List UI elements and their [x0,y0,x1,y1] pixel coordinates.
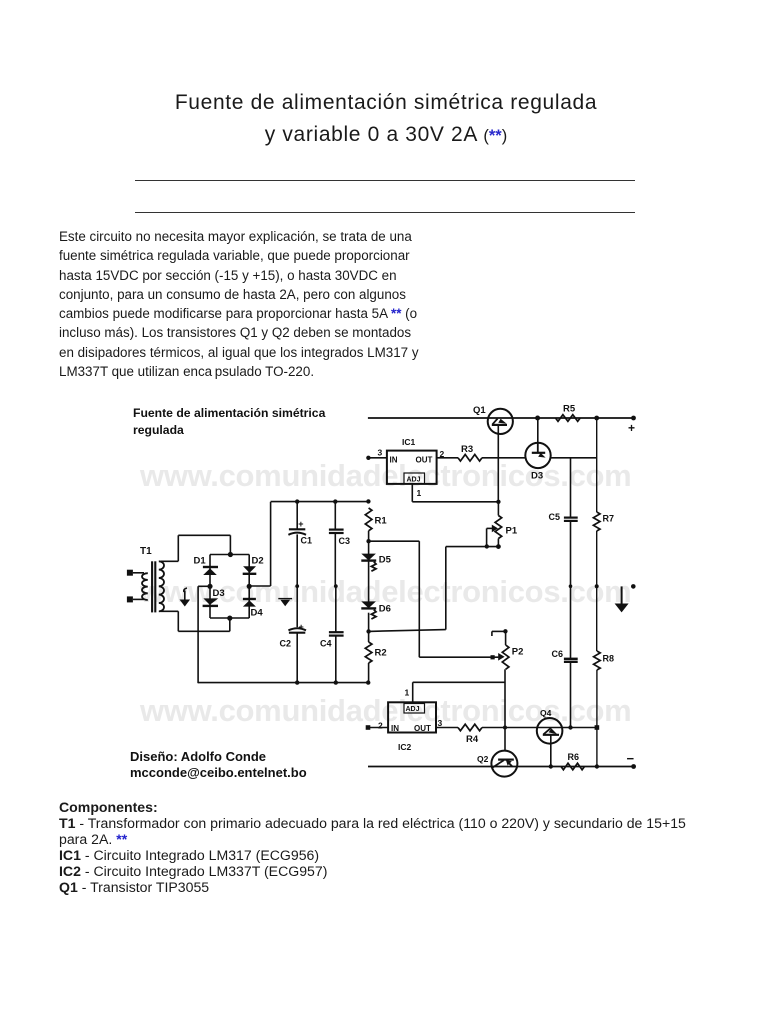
svg-text:R5: R5 [563,404,576,415]
capacitor C3 [329,502,350,586]
svg-text:R1: R1 [375,516,388,527]
diode D2 [243,556,264,574]
node C1 mid [295,584,299,588]
document title line 1 [2,91,768,115]
svg-text:ADJ: ADJ [406,706,420,713]
filter mid ground arrow [278,599,292,607]
resistor R5 [556,404,581,422]
wire R7 to mid [596,531,598,586]
svg-text:3: 3 [378,448,383,458]
resistor R7 [593,512,614,531]
horizontal rule 2 [135,212,635,213]
bridge bottom junction [227,616,232,621]
transistor Q2 [477,751,517,777]
node C5 mid tick [569,584,573,588]
svg-text:IC1: IC1 [402,437,416,447]
schematic title text [133,406,326,437]
zener D6 [361,601,391,619]
diode D4 [243,599,263,619]
bridge frame [210,555,249,619]
svg-text:OUT: OUT [414,724,431,733]
wire IC1 IN [368,457,387,459]
IC1 pin1 label [417,488,422,498]
node R8col-rail [595,764,599,768]
T1 primary winding [142,573,148,600]
bridge top junction [228,552,233,557]
svg-text:+: + [299,622,304,632]
wire P2 bottom to Q2 [504,669,506,751]
svg-text:C6: C6 [552,649,564,659]
wire R8 to out wire [596,670,598,728]
svg-text:D5: D5 [379,555,392,566]
node base line-P2 line [503,726,507,730]
wire node541 to P2 wiper [369,541,499,657]
svg-text:+: + [298,519,303,529]
wire D6-R2 stub [368,613,370,642]
resistor R4 [458,724,482,745]
pass device D3 [525,443,550,482]
wire R4 to R8 column [482,727,597,729]
node P2 wiper [491,655,495,659]
IC2 box [388,702,436,732]
svg-text:Diseño: Adolfo Conde: Diseño: Adolfo Conde [130,749,266,764]
node mid output terminal [631,584,636,589]
bridge left mid node [207,584,212,589]
watermark row 2 [140,574,631,610]
wire D5-D6 [368,561,370,602]
IC2 OUT text [414,724,431,733]
designer credit [130,749,307,780]
node P1 wiper-bottom [485,544,501,549]
IC1 OUT text [416,456,433,465]
resistor R8 [594,651,614,670]
svg-text:C2: C2 [280,639,292,649]
svg-text:P2: P2 [512,647,524,658]
IC1 IN text [390,456,398,465]
svg-text:OUT: OUT [416,456,433,465]
svg-text:D6: D6 [379,604,391,615]
node C6 bottom [568,725,572,729]
svg-text:D3: D3 [213,588,225,599]
svg-text:C5: C5 [549,512,561,522]
svg-text:R7: R7 [603,514,615,524]
potentiometer P1 [487,502,518,547]
wire mid to R8 [596,586,598,651]
minus terminal label [627,751,635,766]
wire IC2 IN [368,727,388,729]
wire IC2 OUT to R4 [436,727,458,729]
wire R7 column top [596,418,598,512]
positive top rail [368,417,634,419]
svg-text:−: − [627,751,635,766]
T1 secondary winding [159,561,164,611]
T1 core [152,561,155,612]
resistor R2 [365,642,386,663]
wire Q1 emitter [497,426,499,502]
svg-text:Q1: Q1 [473,405,486,416]
IC2 pin1 label [405,688,410,698]
wire IC1 OUT to R3 [437,457,458,459]
capacitor C1 [288,502,312,586]
node C4 mid [334,584,338,588]
plus terminal label [628,421,635,435]
ground arrow [615,586,629,612]
bottom negative rail [368,766,634,768]
svg-text:Q4: Q4 [540,708,552,718]
zener D5 [361,554,391,572]
svg-text:2: 2 [378,721,383,731]
svg-text:T1: T1 [140,546,152,557]
node positive output [631,416,636,421]
svg-text:P1: P1 [506,526,518,537]
resistor R6 [561,752,585,770]
watermark row 3 [140,693,631,729]
node R7 mid [595,584,599,588]
svg-text:1: 1 [405,688,410,698]
svg-text:C4: C4 [320,639,332,649]
diode D1 [194,556,219,576]
IC1 pin3 label [378,448,383,458]
node C3 top [333,499,337,503]
resistor R1 [365,508,387,531]
wire Q4 emitter [550,736,552,767]
node C1 top [295,499,299,503]
svg-text:+: + [628,421,635,435]
svg-text:R2: R2 [375,648,387,659]
wire R3 to D3 [482,457,526,459]
svg-text:R3: R3 [461,444,473,455]
intro paragraph [59,227,439,381]
svg-text:IC2: IC2 [398,742,412,752]
wire R2 bottom [368,663,370,683]
wire R1-D5 node stub [368,531,370,555]
capacitor C5 [549,458,578,586]
svg-text:mcconde@ceibo.entelnet.bo: mcconde@ceibo.entelnet.bo [130,765,307,780]
node C4 bottom [334,680,338,684]
wire IC1 pin1 [412,484,498,502]
svg-text:R8: R8 [603,654,615,664]
IC2 pin3 label [438,718,443,728]
resistor R3 [458,444,482,461]
svg-text:IN: IN [390,456,398,465]
IC1 pin2 label [440,449,445,459]
svg-text:regulada: regulada [133,423,184,437]
wire secondary-bottom to bridge bottom [161,611,230,631]
svg-text:D4: D4 [251,608,264,619]
node Q4emitter-rail [549,764,553,768]
svg-text:R4: R4 [466,734,479,745]
diode D3 [203,588,225,606]
wire IC2 pin1 [413,682,505,702]
horizontal rule 1 [135,180,635,181]
IC1 ADJ text [407,477,421,484]
node R8-outwire [595,725,600,730]
wire D3 to R7 rail [551,457,597,459]
node negative output [631,764,636,769]
wire bridge-left-mid to negative rail [198,586,210,683]
transformer T1 label [140,546,152,557]
node ADJ-emitter junction [496,500,500,504]
svg-text:D3: D3 [531,471,543,482]
IC1 box [387,451,437,484]
svg-text:C3: C3 [339,536,351,546]
svg-text:IN: IN [391,724,399,733]
T1 primary terminal lower [127,596,144,602]
raw negative rail [198,682,368,684]
wire bridge-right-mid to positive riser [249,502,270,586]
svg-text:R6: R6 [568,752,580,762]
transistor Q1 [473,405,513,434]
wire secondary-top to bridge top [161,535,231,561]
IC2 IN text [391,724,399,733]
capacitor C4 [320,586,344,683]
T1 primary terminal upper [127,570,144,576]
node R1-D5 [366,539,370,543]
svg-text:3: 3 [438,718,443,728]
IC2 label [398,742,412,752]
svg-text:D1: D1 [194,556,207,567]
node Q1-R5 [535,416,540,421]
IC1 label [402,437,416,447]
node rail-R7 top [594,416,599,421]
capacitor C6 [552,586,578,727]
components list [59,799,739,896]
svg-text:Fuente de alimentación simétri: Fuente de alimentación simétrica [133,406,326,420]
svg-text:1: 1 [417,488,422,498]
IC2 ADJ text [406,706,420,713]
node C2 bottom [295,680,299,684]
wire R8col to bottom rail [596,728,598,767]
svg-text:Q2: Q2 [477,754,489,764]
transistor Q4 [537,708,563,744]
document title line 2 [2,123,768,147]
svg-text:C1: C1 [301,536,313,546]
raw positive rail [271,501,369,503]
node D6-R2 [366,629,370,633]
node negative rail end [366,680,370,684]
watermark row 1 [140,458,631,494]
bridge right mid node [247,584,252,589]
svg-text:D2: D2 [252,556,264,567]
center-tap ground arrow [180,588,191,607]
potentiometer P2 [492,629,524,669]
svg-text:ADJ: ADJ [407,477,421,484]
node IC1 IN end [366,456,370,460]
wire Q1R5node to D3 top [537,418,539,444]
node rail end at R1 [366,499,370,503]
IC2 pin2 label [378,721,383,731]
wire P1 bottom to node631 [369,547,499,632]
capacitor C2 [280,586,307,683]
node IC2 IN end [366,725,371,730]
